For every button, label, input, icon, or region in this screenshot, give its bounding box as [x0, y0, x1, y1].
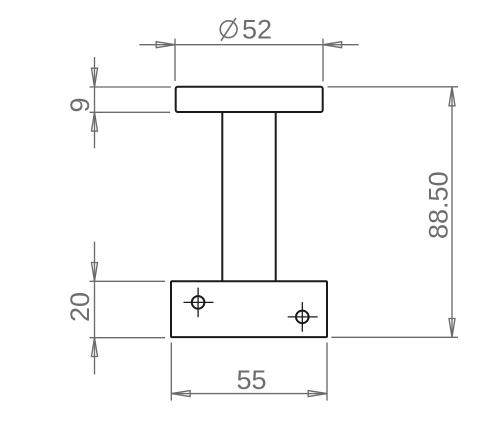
dimension 88.50 : bottom extension line — [331, 336, 458, 338]
part: stem left edge — [221, 112, 223, 281]
svg-text:9: 9 — [65, 97, 95, 112]
dimension 55 : right arrow — [308, 391, 327, 397]
dimension 88.50 : top arrow — [449, 87, 455, 106]
dimension 20 : bottom arrow — [92, 338, 98, 357]
part: bottom plate — [171, 281, 327, 337]
svg-text:52: 52 — [242, 15, 272, 45]
dimension 55 : right extension line — [326, 343, 328, 401]
dimension diameter 52 : diameter symbol — [220, 18, 237, 41]
dimension diameter 52 : right arrow — [323, 42, 342, 48]
part: top plate — [176, 87, 323, 112]
hole right : circle — [296, 311, 309, 324]
dimension 55 : dim line — [171, 343, 327, 401]
dimension 55 : left arrow — [171, 391, 190, 397]
dimension 88.50 : dim line — [328, 87, 458, 337]
hole right : crosshair vertical — [301, 302, 303, 332]
hole left : circle — [192, 296, 205, 309]
dimension diameter 52 : dim line — [139, 39, 358, 82]
dimension 9 : bottom extension line — [90, 111, 171, 113]
dimension 9 : bottom arrow — [92, 112, 98, 131]
dimension 88.50 : bottom arrow — [449, 319, 455, 338]
hole right : crosshair horizontal — [288, 316, 318, 318]
hole left : crosshair vertical — [197, 288, 199, 318]
dimension 55 : left extension line — [170, 343, 172, 401]
part: stem right edge — [275, 112, 277, 281]
dimension 9 : top arrow — [92, 68, 98, 87]
dimension 20 : top arrow — [92, 263, 98, 282]
dimension 9 : dim line — [90, 57, 172, 148]
dimension diameter 52 : left arrow — [156, 42, 175, 48]
dimension 20 : bottom extension line — [90, 337, 166, 339]
dimension 9 : top extension line — [90, 86, 172, 88]
dimension diameter 52 : left extension line — [174, 39, 176, 81]
dimension diameter 52 : right extension line — [322, 39, 324, 82]
hole left : crosshair horizontal — [184, 301, 214, 303]
dimension 88.50 : top extension line — [328, 86, 458, 88]
svg-text:20: 20 — [65, 292, 95, 322]
dimension 20 : top extension line — [90, 280, 166, 282]
svg-text:55: 55 — [236, 365, 266, 395]
dimension 20 : dim line — [90, 242, 166, 375]
svg-text:88.50: 88.50 — [424, 171, 454, 239]
